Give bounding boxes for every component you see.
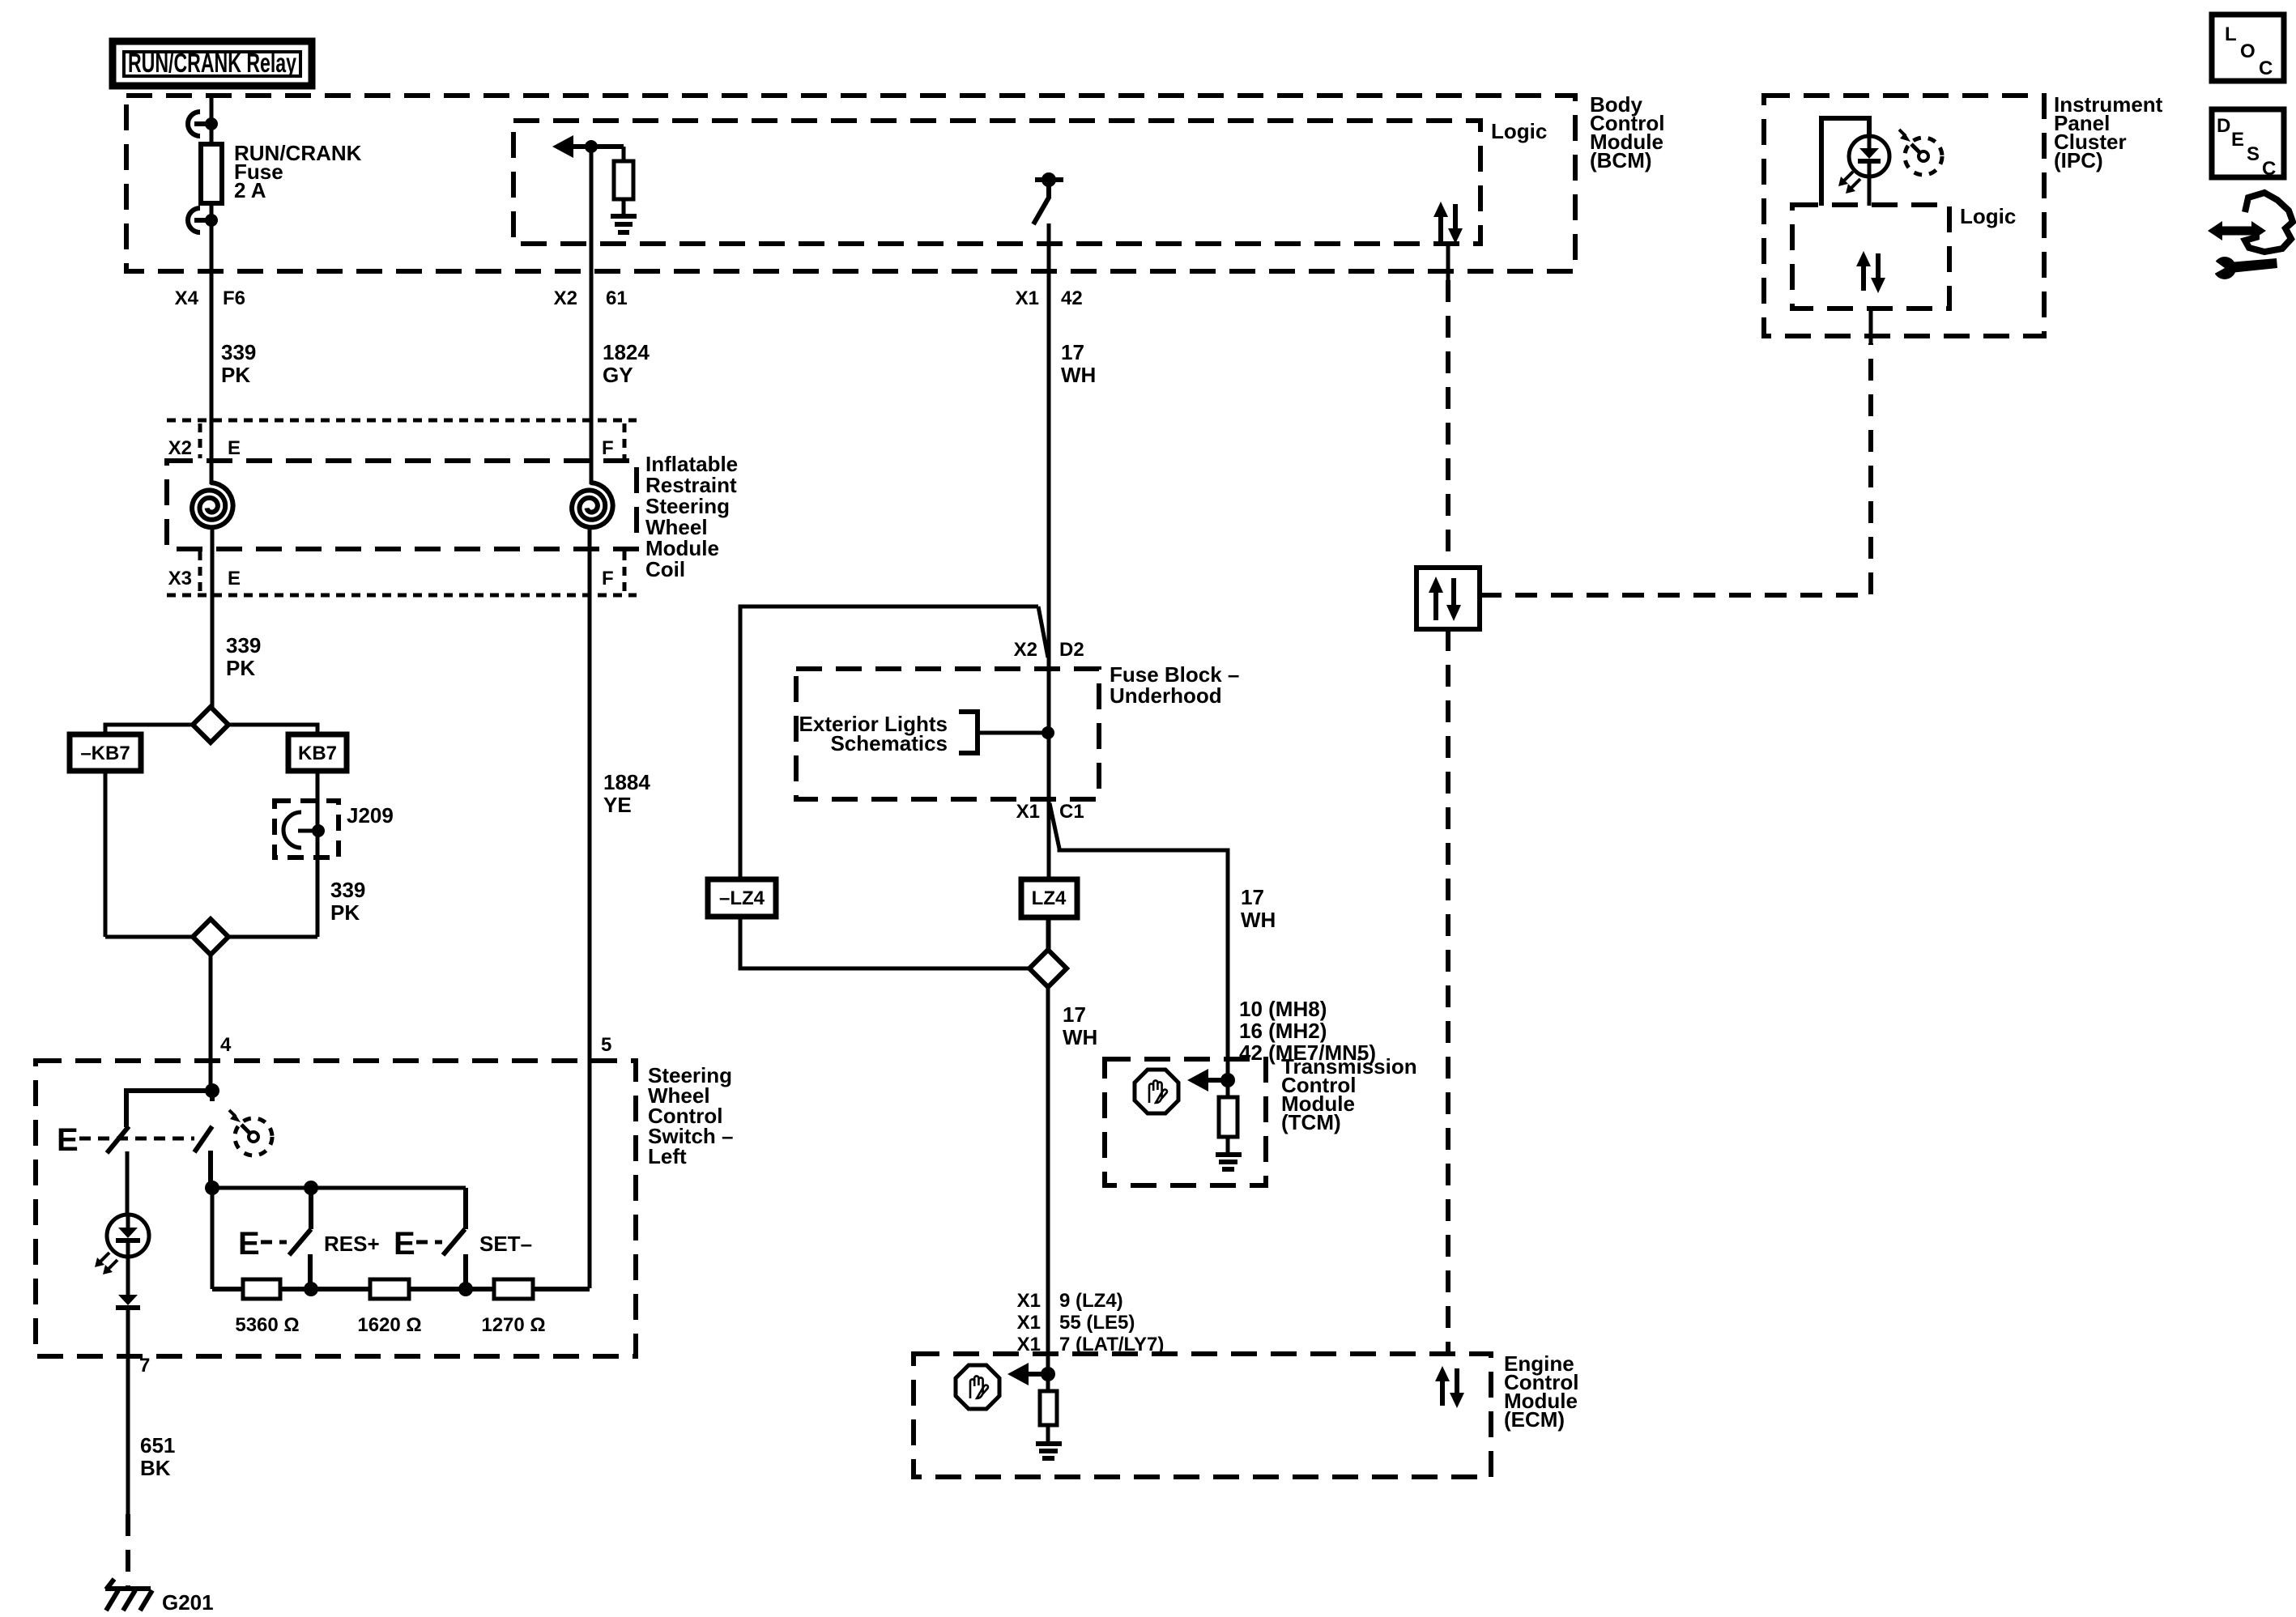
svg-text:1620 Ω: 1620 Ω	[357, 1314, 421, 1336]
wire (diamond to -KB7)	[105, 725, 193, 734]
resistor (BCM internal pull-up)	[614, 147, 633, 199]
LED indicator (cruise lamp)	[95, 1215, 149, 1274]
svg-text:PK: PK	[221, 363, 250, 387]
label RUN/CRANK Fuse 2 A	[234, 141, 362, 202]
label 339 PK (mid)	[226, 633, 261, 680]
junction dot (fuse block)	[1042, 726, 1054, 739]
svg-text:(TCM): (TCM)	[1281, 1110, 1341, 1134]
ground (ECM)	[1036, 1425, 1062, 1458]
svg-text:2 A: 2 A	[234, 178, 266, 202]
svg-text:(ECM): (ECM)	[1504, 1407, 1565, 1432]
svg-text:LZ4: LZ4	[1032, 887, 1067, 909]
arrow (ECM input)	[1007, 1363, 1048, 1385]
diode	[116, 1295, 140, 1308]
module box Fuse Block Underhood	[796, 669, 1099, 799]
gauge icon (cruise control)	[229, 1110, 272, 1155]
serial data gateway box	[1416, 568, 1480, 629]
wire (-KB7 down)	[104, 771, 108, 937]
serial data symbol (IPC)	[1856, 251, 1885, 293]
svg-text:(IPC): (IPC)	[2054, 148, 2103, 172]
label 1824 GY	[603, 340, 650, 387]
svg-text:X1: X1	[1016, 287, 1039, 309]
wire 17 WH (BCM X1-42 main)	[1047, 223, 1051, 950]
serial data symbol (BCM)	[1433, 202, 1463, 280]
svg-text:E: E	[238, 1226, 260, 1262]
resistor 1270 ohm	[494, 1279, 533, 1299]
resistor 5360 ohm	[243, 1279, 280, 1299]
junction dot (BCM)	[585, 140, 598, 153]
label 339 PK (top)	[221, 340, 256, 387]
svg-text:–LZ4: –LZ4	[719, 887, 765, 909]
svg-text:X3: X3	[168, 568, 192, 589]
wire (-LZ4 to diamond)	[740, 917, 1029, 968]
svg-text:Left: Left	[648, 1144, 687, 1168]
wire (tap to main)	[978, 731, 1048, 735]
label Engine Control Module (ECM)	[1504, 1351, 1578, 1432]
wire 651 BK (diode to pin 7)	[126, 1308, 130, 1514]
connector X1 | C1	[1016, 801, 1084, 823]
switch RES+	[238, 1188, 380, 1289]
svg-text:55 (LE5): 55 (LE5)	[1059, 1312, 1135, 1334]
gauge icon (IPC)	[1899, 130, 1942, 175]
relay contact (upper)	[188, 112, 218, 136]
label Body Control Module (BCM)	[1590, 92, 1664, 172]
terminal -LZ4	[708, 879, 776, 917]
label Inflatable Restraint Steering Wheel Module Coil	[645, 452, 738, 581]
svg-text:O: O	[2240, 40, 2256, 62]
svg-text:5: 5	[601, 1034, 611, 1056]
svg-text:F: F	[602, 568, 614, 589]
svg-text:X1: X1	[1017, 1312, 1041, 1334]
svg-text:9 (LZ4): 9 (LZ4)	[1059, 1290, 1123, 1312]
LED indicator (IPC cruise lamp)	[1838, 136, 1889, 206]
svg-text:PK: PK	[330, 900, 360, 925]
svg-text:17: 17	[1063, 1002, 1086, 1027]
wire slant (joins main at X2-D2)	[1038, 606, 1048, 657]
ground G201	[105, 1579, 152, 1611]
icon stop hand (TCM)	[1135, 1070, 1178, 1113]
wire 1884 YE (coil F down to switch pin 5)	[588, 527, 592, 1288]
svg-text:651: 651	[140, 1433, 175, 1457]
svg-text:KB7: KB7	[298, 743, 337, 764]
svg-text:Coil: Coil	[645, 557, 685, 581]
fuse RUN/CRANK 2A	[201, 144, 222, 203]
resistor (ECM)	[1040, 1391, 1057, 1425]
switch (cruise on/off, left pole)	[126, 1091, 212, 1127]
icon stop hand (ECM)	[956, 1365, 999, 1409]
svg-text:C1: C1	[1059, 801, 1084, 823]
svg-text:C: C	[2259, 57, 2273, 79]
svg-text:X2: X2	[168, 437, 192, 459]
resistor (TCM)	[1219, 1097, 1237, 1137]
svg-text:Logic: Logic	[1960, 204, 2016, 228]
wire 339 PK (coil X3-E down)	[211, 527, 215, 707]
resistor 1620 ohm	[370, 1279, 409, 1299]
svg-text:RES+: RES+	[324, 1232, 380, 1256]
LED circuit wire (IPC)	[1821, 118, 1869, 206]
svg-text:WH: WH	[1061, 363, 1096, 387]
label 17 WH (branch)	[1241, 885, 1276, 932]
mech link E (on/off switch)	[57, 1122, 194, 1158]
serial data symbol (ECM)	[1435, 1366, 1464, 1408]
arrow (TCM input)	[1187, 1069, 1228, 1091]
svg-text:X1: X1	[1017, 1290, 1041, 1312]
connector row X3 (coil bottom)	[167, 551, 637, 595]
module box Inflatable Restraint Steering Wheel Module Coil	[167, 461, 637, 549]
IPC logic box	[1792, 205, 1949, 309]
wire 1824 GY (BCM X2-61 to coil F)	[590, 147, 594, 484]
svg-text:17: 17	[1061, 340, 1084, 364]
node splice diamond (lower)	[105, 919, 317, 955]
svg-text:1270 Ω: 1270 Ω	[481, 1314, 545, 1336]
label Steering Wheel Control Switch - Left	[648, 1063, 733, 1168]
legend box LOC	[2212, 15, 2284, 81]
connector labels ECM pins	[1017, 1290, 1165, 1355]
svg-text:D: D	[2217, 115, 2230, 137]
wire branch (fuse block feed loop, left)	[740, 606, 1038, 879]
terminal LZ4	[1021, 879, 1077, 917]
connector X4 | F6	[175, 287, 245, 309]
svg-text:–KB7: –KB7	[80, 743, 130, 764]
svg-text:X4: X4	[175, 287, 199, 309]
svg-text:L: L	[2225, 23, 2237, 45]
wire branch to TCM (17 WH)	[1050, 803, 1228, 1097]
connector X2 | D2	[1014, 639, 1084, 661]
wire 17 WH (diamond to ECM)	[1046, 987, 1050, 1391]
module box Steering Wheel Control Switch Left	[36, 1061, 636, 1356]
connector X1 | 42	[1016, 287, 1083, 309]
svg-text:E: E	[228, 437, 241, 459]
wire 339 PK (fuse to coil X2-E)	[210, 203, 214, 484]
svg-text:Logic: Logic	[1491, 119, 1547, 143]
svg-text:WH: WH	[1063, 1025, 1097, 1049]
svg-text:5360 Ω: 5360 Ω	[235, 1314, 299, 1336]
serial data bus (gateway to ECM)	[1446, 629, 1450, 1354]
serial data bus (gateway to IPC)	[1480, 343, 1871, 595]
svg-text:F: F	[602, 437, 614, 459]
label Exterior Lights Schematics	[799, 712, 948, 755]
svg-text:X2: X2	[554, 287, 577, 309]
label 1884 YE	[603, 770, 650, 817]
svg-text:WH: WH	[1241, 908, 1276, 932]
junction dot (pin 4 node)	[205, 1083, 219, 1098]
label Fuse Block - Underhood	[1110, 662, 1239, 708]
svg-text:YE: YE	[603, 793, 632, 817]
wire (LZ4 to diamond)	[1046, 917, 1050, 951]
svg-text:S: S	[2247, 143, 2260, 165]
svg-text:339: 339	[221, 340, 256, 364]
junction dot (TCM)	[1220, 1073, 1235, 1087]
svg-text:Schematics: Schematics	[830, 731, 948, 755]
module box IPC	[1764, 96, 2044, 336]
svg-text:339: 339	[226, 633, 261, 657]
svg-text:C: C	[2262, 158, 2276, 180]
wire (LED branch)	[126, 1151, 130, 1215]
svg-text:61: 61	[606, 287, 628, 309]
splice J209	[275, 801, 339, 857]
svg-text:BK: BK	[140, 1456, 171, 1480]
label TCM pins	[1239, 997, 1376, 1065]
svg-text:339: 339	[330, 878, 365, 902]
connector row X2 (coil top)	[167, 420, 637, 459]
coil spiral (left)	[192, 483, 233, 527]
svg-text:E: E	[394, 1226, 415, 1262]
connector X2 | 61	[554, 287, 628, 309]
svg-text:RUN/CRANK Relay: RUN/CRANK Relay	[128, 48, 296, 78]
svg-text:X2: X2	[1014, 639, 1037, 661]
svg-text:1824: 1824	[603, 340, 650, 364]
IPC serial stub	[1869, 309, 1873, 343]
svg-text:SET–: SET–	[479, 1232, 532, 1256]
terminal -KB7	[70, 734, 141, 771]
svg-text:4: 4	[220, 1034, 232, 1056]
svg-text:G201: G201	[162, 1590, 214, 1615]
coil spiral (right)	[572, 483, 613, 527]
label 651 BK	[140, 1433, 175, 1480]
svg-text:F6: F6	[223, 287, 245, 309]
label 17 WH (top)	[1061, 340, 1096, 387]
svg-text:42: 42	[1061, 287, 1083, 309]
svg-text:E: E	[57, 1122, 79, 1158]
module box BCM (outer dashed)	[126, 96, 1575, 271]
svg-text:J209: J209	[347, 803, 394, 828]
wire (dashed to ground)	[126, 1514, 130, 1587]
wire (KB7 down through J209)	[316, 771, 320, 937]
module box ECM	[914, 1354, 1491, 1477]
switch (cruise on/off, right pole)	[194, 1091, 212, 1188]
switch SET-	[394, 1188, 532, 1289]
svg-text:X1: X1	[1016, 801, 1040, 823]
legend box DESC	[2212, 109, 2284, 180]
wire 339 PK (to switch pin 4)	[209, 955, 213, 1091]
label 17 WH (below diamond)	[1063, 1002, 1097, 1049]
resistor ladder top rail	[205, 1181, 466, 1195]
label Transmission Control Module (TCM)	[1281, 1054, 1417, 1134]
node splice diamond (17 WH)	[1029, 950, 1067, 987]
resistor ladder bottom rail	[212, 1188, 590, 1296]
svg-text:E: E	[228, 568, 241, 589]
svg-text:GY: GY	[603, 363, 633, 387]
svg-text:7: 7	[139, 1355, 150, 1377]
title box RUN/CRANK Relay	[113, 41, 312, 86]
wire (diamond to KB7)	[228, 725, 317, 734]
bracket (exterior lights tap)	[959, 712, 978, 753]
svg-text:E: E	[2231, 129, 2244, 151]
arrow (BCM signal out, left)	[552, 135, 624, 158]
icon data link (hand with arrow and wrench)	[2207, 193, 2293, 279]
wire: feed into relay contact	[210, 96, 214, 144]
svg-text:10 (MH8): 10 (MH8)	[1239, 997, 1327, 1021]
svg-text:PK: PK	[226, 656, 255, 680]
BCM logic box	[513, 121, 1480, 244]
svg-text:17: 17	[1241, 885, 1264, 909]
terminal KB7	[288, 734, 347, 771]
serial data bus (BCM to gateway)	[1446, 280, 1450, 568]
wire (LED to diode)	[126, 1257, 130, 1295]
svg-text:Underhood: Underhood	[1110, 683, 1222, 708]
node splice diamond (upper)	[193, 707, 228, 743]
module box TCM	[1105, 1059, 1266, 1185]
ground (BCM internal)	[611, 199, 637, 232]
label 339 PK (below J209)	[330, 878, 365, 925]
switch (BCM internal, X1-42 output)	[1033, 172, 1063, 224]
junction dot (ECM)	[1041, 1367, 1055, 1381]
ground (TCM)	[1216, 1137, 1242, 1169]
svg-text:D2: D2	[1059, 639, 1084, 661]
svg-text:16 (MH2): 16 (MH2)	[1239, 1019, 1327, 1043]
label Instrument Panel Cluster (IPC)	[2054, 92, 2163, 172]
svg-text:1884: 1884	[603, 770, 650, 794]
relay contact (lower)	[188, 208, 218, 232]
svg-text:(BCM): (BCM)	[1590, 148, 1652, 172]
